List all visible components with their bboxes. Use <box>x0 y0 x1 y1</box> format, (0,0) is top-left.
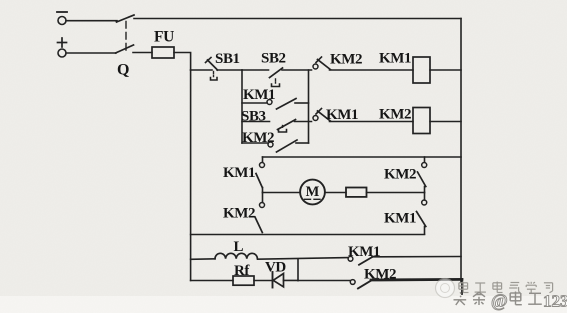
right rail <box>460 19 462 283</box>
switch Q mechanical link (dashed) <box>125 22 127 51</box>
bridge left vertical upper stub <box>262 157 264 162</box>
svg-text:KM1: KM1 <box>379 51 411 67</box>
svg-text:@: @ <box>491 291 508 311</box>
fuse FU <box>152 47 174 58</box>
contact KM1 (NC, row E) <box>313 109 331 122</box>
wire VD to junction <box>284 279 299 281</box>
svg-text:KM1: KM1 <box>243 87 275 103</box>
wire KM1nc to coil KM2 <box>330 121 414 123</box>
wire top line <box>134 18 461 20</box>
wire junction to KM2 contact <box>298 280 350 282</box>
node vertical joining row G and row H <box>297 259 299 281</box>
wire fuse to left rail corner <box>174 53 191 71</box>
wire switch to fuse <box>133 52 152 54</box>
svg-text:KM2: KM2 <box>384 167 416 183</box>
watermark text line 2 <box>454 292 542 306</box>
watermark text line 1 <box>459 282 553 294</box>
wire row G left <box>191 258 215 261</box>
coil KM2 <box>413 108 430 134</box>
wire stub down at right end <box>461 279 463 294</box>
wire SB1 to junction <box>217 69 242 71</box>
svg-text:KM2: KM2 <box>379 107 411 123</box>
svg-text:KM2: KM2 <box>330 52 362 68</box>
svg-text:M: M <box>306 184 320 200</box>
terminal minus <box>57 12 67 25</box>
contact KM1 (bridge left top) <box>256 163 265 193</box>
svg-text:KM2: KM2 <box>223 206 255 222</box>
bridge top wire <box>263 156 462 158</box>
svg-text:KM1: KM1 <box>223 165 255 181</box>
svg-text:SB2: SB2 <box>261 51 286 67</box>
svg-text:Q: Q <box>117 62 129 79</box>
node: left vertical of latch group <box>241 70 243 143</box>
svg-text:123: 123 <box>543 292 567 311</box>
contact KM2 (NC, row C) <box>313 57 331 70</box>
wire KM2nc to coil KM1 <box>330 69 414 71</box>
wire coil KM2 to right rail <box>430 121 461 123</box>
wire inductor to contact <box>258 258 348 260</box>
contact KM2 (row H) <box>350 280 371 289</box>
wire row G right to rail <box>372 256 461 258</box>
svg-text:KM2: KM2 <box>242 130 274 146</box>
svg-text:KM2: KM2 <box>364 267 396 283</box>
motor M <box>300 180 325 205</box>
svg-text:Rf: Rf <box>234 263 250 279</box>
contact KM2 (bridge left bottom) <box>255 193 265 233</box>
coil KM1 <box>413 57 430 83</box>
contact KM2 (NO aux, row F) <box>242 140 309 152</box>
bridge middle wire right <box>367 192 425 194</box>
bridge bottom wire <box>191 234 425 236</box>
watermark logo circle <box>436 279 455 298</box>
wire row H right (thick) <box>371 278 462 281</box>
svg-text:FU: FU <box>154 29 174 46</box>
bridge middle wire center <box>325 192 346 194</box>
switch Q upper blade <box>117 15 135 22</box>
wire row C left <box>191 69 212 71</box>
inductor L <box>215 253 257 259</box>
wire top from minus terminal to switch <box>66 20 117 22</box>
resistor (armature) <box>346 188 367 197</box>
resistor Rf <box>233 276 254 285</box>
contact KM1 (bridge right bottom) <box>417 193 427 235</box>
wire Rf to VD <box>254 280 273 282</box>
pushbutton SB2 (NO) <box>270 68 283 87</box>
diode VD <box>273 272 284 288</box>
svg-text:KM1: KM1 <box>384 211 416 227</box>
bridge middle wire left <box>263 192 301 194</box>
svg-text:KM1: KM1 <box>348 244 380 260</box>
wire to SB2 <box>242 69 269 71</box>
svg-text:SB3: SB3 <box>241 109 266 125</box>
pushbutton SB1 (NC) <box>206 58 218 81</box>
contact KM1 (row G) <box>348 256 373 264</box>
switch Q lower blade <box>116 45 134 53</box>
wire row H left <box>191 280 233 282</box>
node: right vertical of latch group <box>308 70 310 143</box>
svg-text:SB1: SB1 <box>215 51 240 67</box>
wire plus to switch <box>66 52 116 54</box>
wire SB2 to right vertical <box>282 69 312 71</box>
left rail <box>190 70 192 281</box>
pushbutton SB3 (NO, row E) <box>242 120 312 133</box>
terminal plus <box>58 38 67 57</box>
svg-text:L: L <box>234 239 244 255</box>
wire coil KM1 to right rail <box>430 69 461 71</box>
svg-text:VD: VD <box>265 260 286 276</box>
contact KM2 (bridge right top) <box>418 157 427 193</box>
contact KM1 (NO aux, row D) <box>242 99 309 110</box>
svg-text:KM1: KM1 <box>326 107 358 123</box>
